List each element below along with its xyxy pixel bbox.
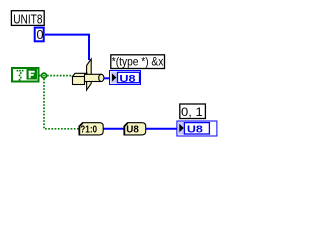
wire U8 conversion to indicator U8 #2 (146, 128, 177, 130)
svg-text:0: 0 (37, 28, 44, 42)
bolt head front face (73, 77, 85, 85)
indicator U8 #1 (110, 71, 141, 86)
wire from constant 0 to type cast (45, 35, 89, 60)
svg-text:0, 1: 0, 1 (181, 105, 203, 119)
wire from type cast to indicator U8 #1 (104, 77, 111, 79)
conversion node U8 (124, 123, 146, 136)
label UNIT8 (11, 11, 44, 27)
wire junction node (42, 73, 47, 78)
label 0, 1 (180, 104, 206, 119)
rod end cap (99, 74, 104, 81)
label *(type *) &x (111, 55, 165, 69)
type cast U1 (73, 59, 104, 90)
numeric constant 0 (35, 28, 44, 42)
svg-text:U8: U8 (187, 124, 203, 136)
bolt head top face (73, 73, 88, 76)
boolean constant F (12, 68, 39, 82)
boolean wire: constant to junction (39, 75, 41, 77)
indicator U8 #2 (177, 121, 217, 136)
svg-text:U8: U8 (119, 73, 135, 85)
svg-text:U8: U8 (126, 125, 139, 136)
svg-text:?1:0: ?1:0 (80, 125, 97, 136)
boolean wire: junction down and right to ?1:0 (44, 79, 79, 129)
svg-text:*(type *) &x: *(type *) &x (112, 55, 164, 69)
svg-text:UNIT8: UNIT8 (13, 11, 42, 26)
node ?1:0 (Boolean to 0,1) (79, 123, 103, 136)
wire ?1:0 to U8 conversion (103, 128, 123, 130)
plate (87, 59, 92, 90)
rod through plate (85, 74, 102, 81)
boolean wire: junction to type cast (47, 75, 73, 77)
